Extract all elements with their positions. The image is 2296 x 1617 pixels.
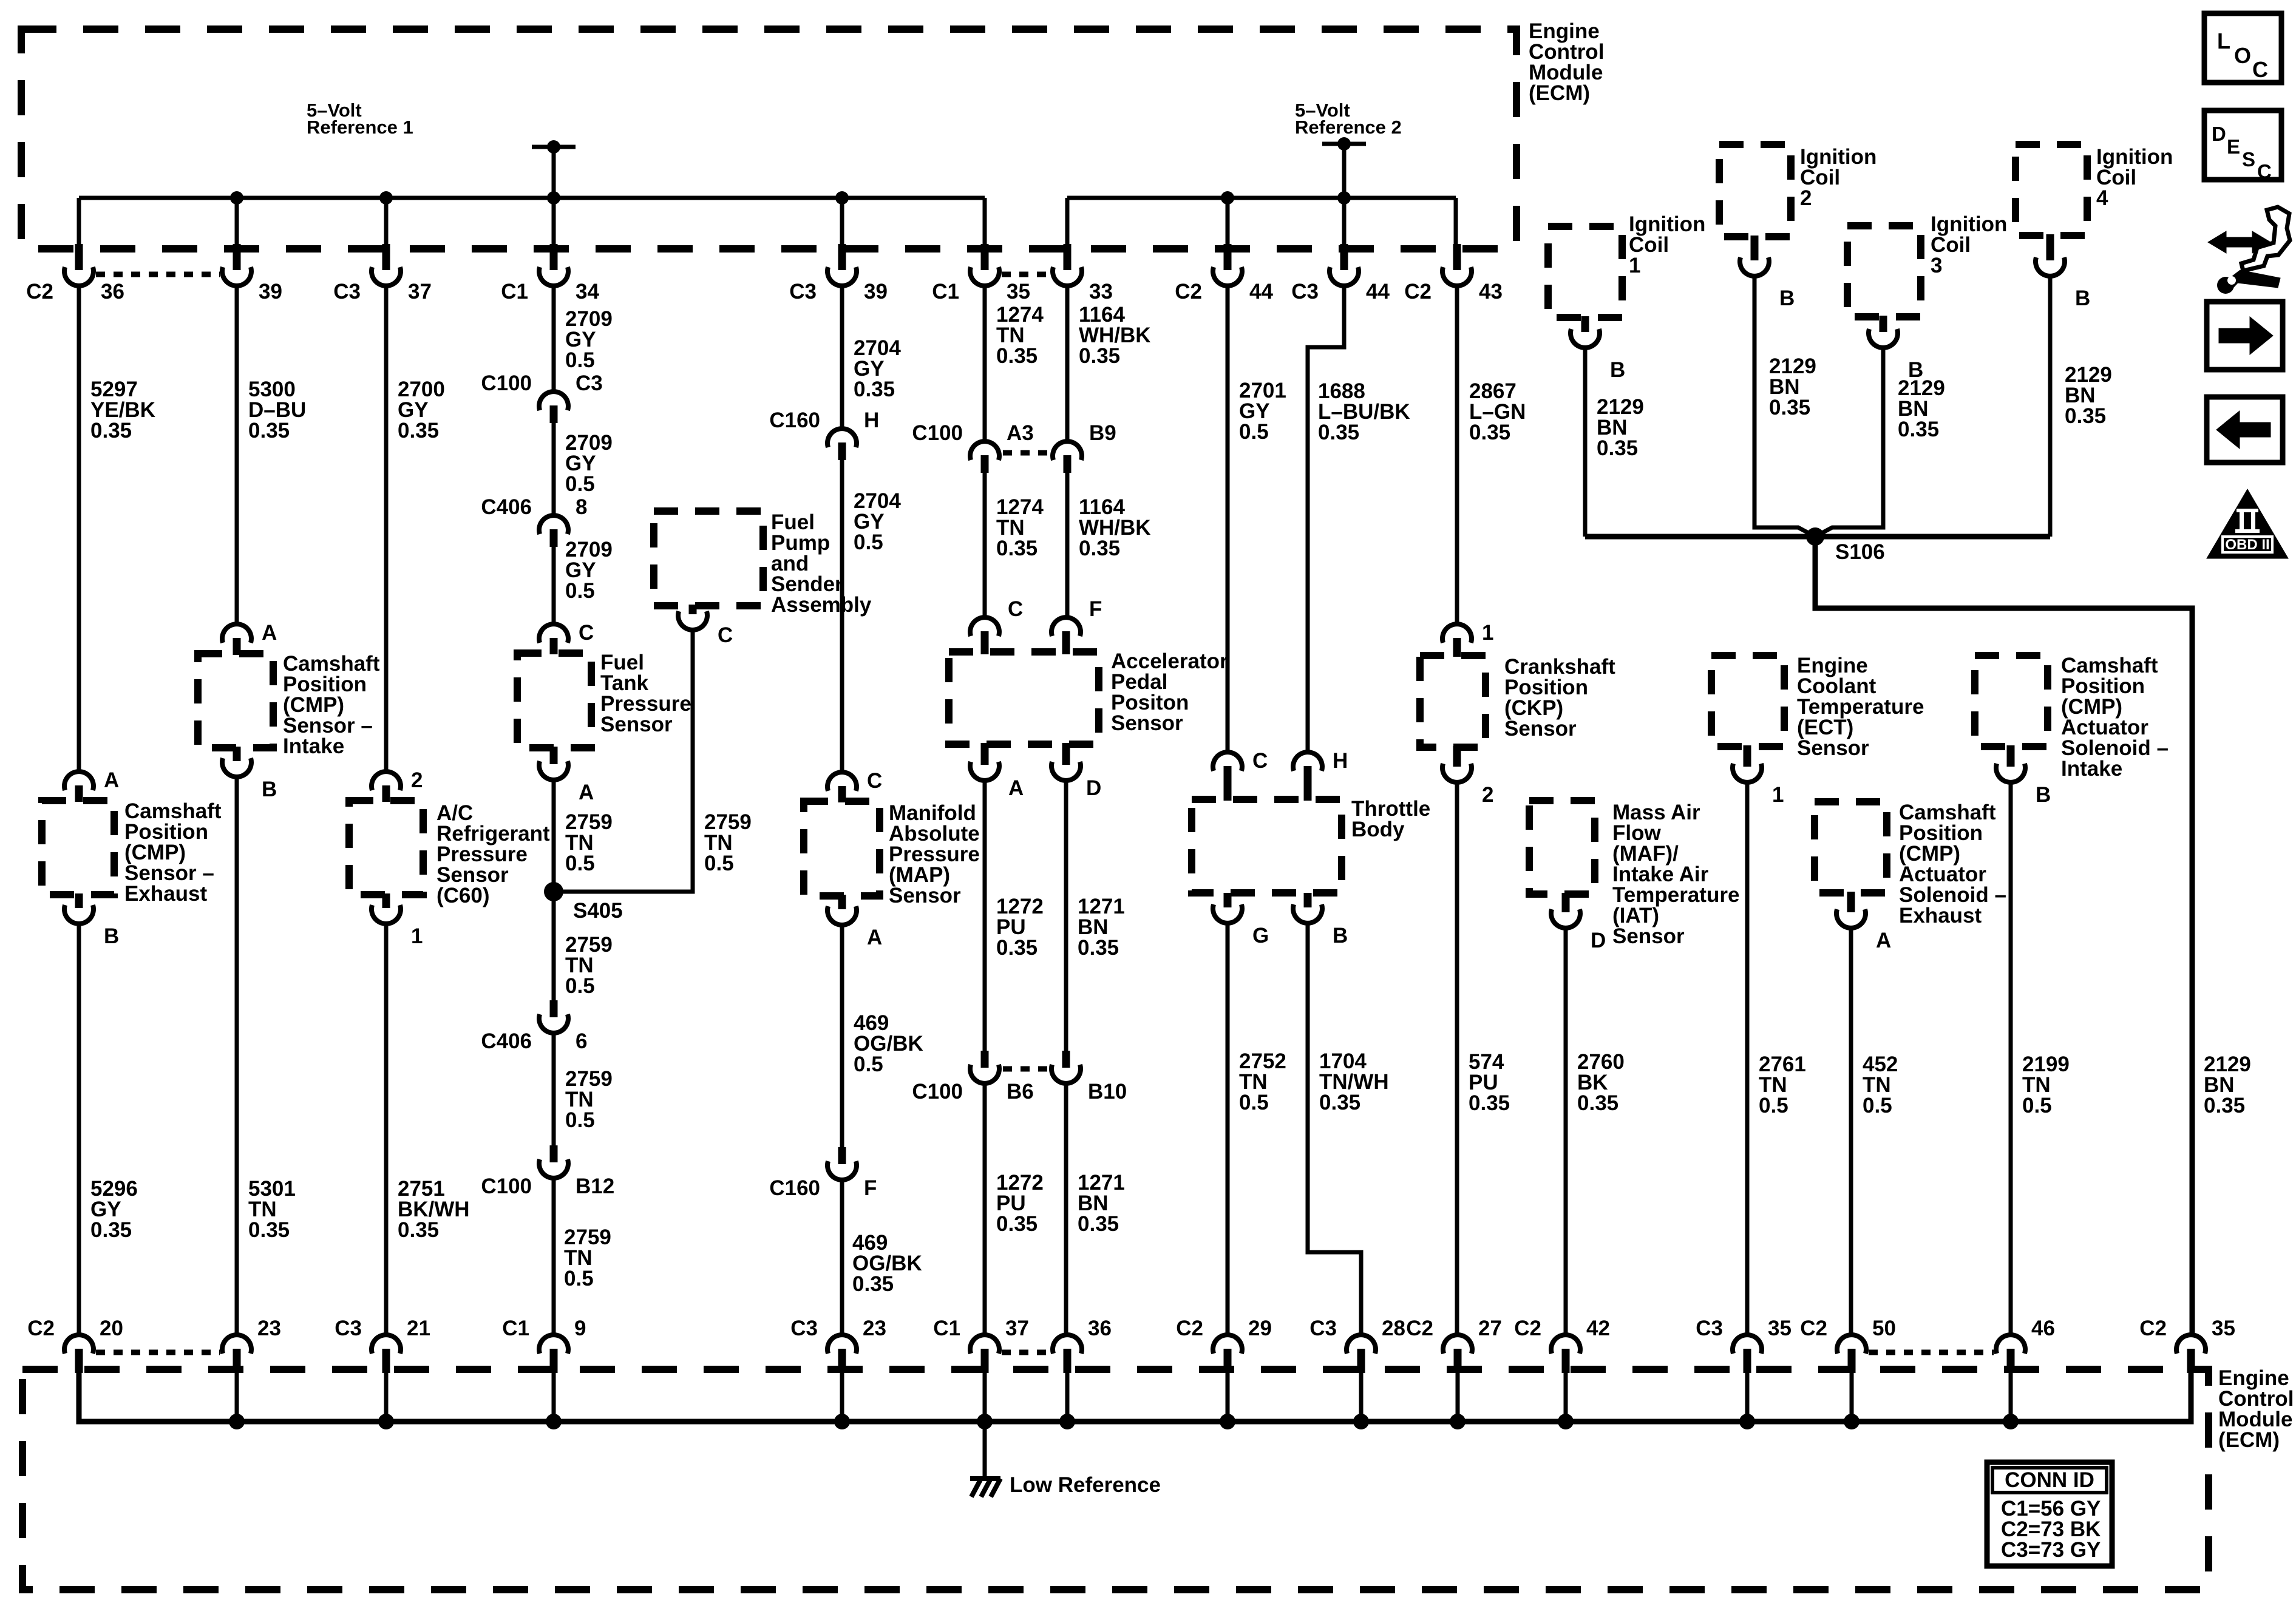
svg-text:C3: C3 xyxy=(1309,1317,1337,1340)
svg-text:0.35: 0.35 xyxy=(248,419,290,442)
svg-text:34: 34 xyxy=(576,280,599,303)
svg-text:29: 29 xyxy=(1248,1317,1272,1340)
svg-text:D: D xyxy=(1086,776,1101,800)
svg-text:(C60): (C60) xyxy=(436,884,490,907)
svg-text:0.35: 0.35 xyxy=(90,419,132,442)
svg-text:C3: C3 xyxy=(1696,1317,1723,1340)
wire 1274 TN segment 1 xyxy=(983,285,987,442)
wire 2129 BN coil4 segment xyxy=(2048,275,2053,537)
svg-text:B: B xyxy=(1333,924,1348,947)
svg-text:C: C xyxy=(2257,160,2272,183)
svg-text:O: O xyxy=(2234,43,2251,68)
svg-text:B9: B9 xyxy=(1089,421,1116,445)
svg-text:B10: B10 xyxy=(1088,1080,1127,1103)
svg-text:C2: C2 xyxy=(27,1317,55,1340)
wire 574 PU segment xyxy=(1455,781,1459,1335)
ECM bottom connector C2 pin 20 xyxy=(64,1335,93,1354)
svg-text:0.35: 0.35 xyxy=(248,1218,290,1242)
svg-text:21: 21 xyxy=(407,1317,430,1340)
svg-text:S106: S106 xyxy=(1835,540,1885,564)
connector pin 1 of ECT sensor xyxy=(1744,745,1751,767)
svg-text:0.5: 0.5 xyxy=(564,1267,594,1290)
node low reference bus junctions xyxy=(229,1414,245,1429)
svg-text:8: 8 xyxy=(576,495,587,519)
wire 452 TN segment xyxy=(1849,927,1853,1335)
diagnostic tool icon wrench xyxy=(2229,270,2280,292)
svg-text:0.5: 0.5 xyxy=(565,1108,595,1132)
wire 1271 BN segment 2 xyxy=(1064,1083,1068,1335)
svg-text:0.5: 0.5 xyxy=(1863,1094,1892,1117)
svg-text:(ECM): (ECM) xyxy=(1529,81,1590,105)
svg-text:0.35: 0.35 xyxy=(2204,1094,2245,1117)
svg-text:B: B xyxy=(1908,358,1923,382)
connector pin B of ignition coil 4 xyxy=(2046,234,2054,260)
svg-text:43: 43 xyxy=(1479,280,1503,303)
svg-text:C3: C3 xyxy=(1291,280,1319,303)
svg-text:42: 42 xyxy=(1586,1317,1610,1340)
wire 2129 BN coil2 segment with V merge xyxy=(1754,275,1815,537)
svg-text:0.35: 0.35 xyxy=(852,1272,894,1296)
svg-text:A: A xyxy=(1876,929,1891,952)
engine coolant temperature ECT sensor dashed box xyxy=(1711,656,1784,747)
dotted connector bracket B6-B10 xyxy=(1003,1066,1049,1072)
wire 1704 TN/WH jogged segment xyxy=(1308,922,1361,1335)
svg-text:S: S xyxy=(2242,148,2255,171)
svg-text:0.35: 0.35 xyxy=(1469,421,1510,444)
CMP actuator solenoid intake dashed box xyxy=(1975,656,2048,747)
connector pin B of CMP sensor exhaust xyxy=(75,893,83,908)
svg-text:23: 23 xyxy=(257,1317,281,1340)
svg-text:0.5: 0.5 xyxy=(854,1053,883,1076)
diagnostic tool icon part outline xyxy=(2241,207,2290,271)
svg-text:C100: C100 xyxy=(912,1080,963,1103)
ECM bottom connector C1 pin 9 xyxy=(539,1335,568,1354)
wire 5300 D-BU segment xyxy=(235,285,239,625)
diagnostic tool icon double arrow xyxy=(2208,231,2271,253)
wire 5-Volt Reference 1 drop xyxy=(552,147,556,198)
svg-text:0.5: 0.5 xyxy=(565,348,595,372)
svg-text:27: 27 xyxy=(1478,1317,1502,1340)
5-Volt Reference 2 feed tick xyxy=(1322,142,1366,146)
ECM bottom connector C3 pin 23 xyxy=(827,1335,857,1354)
connector pin C of fuel tank pressure sensor xyxy=(539,624,568,643)
svg-text:35: 35 xyxy=(1007,280,1030,303)
svg-text:C1: C1 xyxy=(933,1317,960,1340)
low reference bus inside bottom ECM xyxy=(79,1372,2191,1422)
wire 1688 L-BU/BK jogged segment xyxy=(1308,285,1344,753)
svg-text:1: 1 xyxy=(1482,621,1493,645)
wire stubs ECM bottom pins to low reference bus xyxy=(235,1372,239,1422)
inline connector pin B9 xyxy=(1053,441,1082,460)
wire 2752 TN segment xyxy=(1226,922,1230,1335)
svg-text:Reference 1: Reference 1 xyxy=(307,117,413,138)
svg-text:C2: C2 xyxy=(1800,1317,1827,1340)
svg-text:46: 46 xyxy=(2031,1317,2055,1340)
svg-text:B: B xyxy=(2036,783,2051,807)
ECM top connector pin 39 xyxy=(233,244,241,270)
ignition coil 4 dashed box xyxy=(2016,144,2087,236)
svg-text:1: 1 xyxy=(1629,254,1640,277)
svg-text:C2: C2 xyxy=(1406,1317,1433,1340)
svg-text:F: F xyxy=(864,1176,877,1200)
svg-text:0.35: 0.35 xyxy=(2065,404,2106,428)
svg-text:2: 2 xyxy=(411,768,423,792)
dotted connector bracket pins 50-46 xyxy=(1869,1350,1994,1355)
connector pin H of throttle body xyxy=(1293,752,1322,771)
wire 2701 GY segment xyxy=(1226,285,1230,753)
wire 2700 GY segment xyxy=(384,285,389,773)
dotted connector bracket pins 20-23 xyxy=(96,1350,220,1355)
svg-text:6: 6 xyxy=(576,1029,587,1053)
svg-text:C3: C3 xyxy=(335,1317,362,1340)
connector pin D of accelerator pedal position sensor xyxy=(1062,743,1070,765)
svg-text:Assembly: Assembly xyxy=(771,593,872,617)
ignition coil 3 dashed box xyxy=(1847,226,1921,317)
svg-text:0.35: 0.35 xyxy=(1597,436,1638,460)
camshaft position CMP sensor exhaust dashed box xyxy=(42,801,114,895)
OBD II triangle icon xyxy=(2207,489,2288,558)
svg-text:0.35: 0.35 xyxy=(1079,537,1120,560)
wire 1164 WH/BK segment 2 xyxy=(1065,473,1070,619)
CONN ID table xyxy=(1987,1462,2112,1566)
svg-text:C100: C100 xyxy=(481,371,532,395)
wire 2129 BN coil3 segment with V merge xyxy=(1815,347,1883,537)
svg-text:Sensor: Sensor xyxy=(1797,736,1869,760)
connector pin 2 of CKP sensor xyxy=(1453,746,1461,767)
svg-text:B6: B6 xyxy=(1007,1080,1034,1103)
mass air flow MAF IAT sensor dashed box xyxy=(1529,801,1595,894)
svg-text:C100: C100 xyxy=(481,1175,532,1198)
svg-text:0.5: 0.5 xyxy=(704,852,734,875)
ECM top connector C3 pin 37 xyxy=(382,244,390,270)
svg-text:0.35: 0.35 xyxy=(996,936,1038,960)
camshaft position CMP sensor intake dashed box xyxy=(198,654,273,748)
svg-text:B: B xyxy=(1779,286,1795,310)
svg-text:D: D xyxy=(1591,929,1606,952)
connector pin B of ignition coil 3 xyxy=(1880,316,1887,332)
svg-text:C3=73 GY: C3=73 GY xyxy=(2001,1538,2101,1562)
wire 2709 GY segment 3 xyxy=(552,547,556,625)
wire 2759 TN segment below S405 xyxy=(552,892,556,1002)
svg-text:CONN ID: CONN ID xyxy=(2005,1468,2094,1492)
svg-text:0.5: 0.5 xyxy=(565,852,595,875)
connector pin 2 of A/C refrigerant pressure sensor xyxy=(372,771,401,790)
wire 5301 TN segment xyxy=(235,776,239,1335)
connector pin B of CMP sensor intake xyxy=(233,747,241,761)
ECM bottom connector pin 23 xyxy=(222,1335,251,1354)
dotted connector bracket pins 35-33 xyxy=(1002,272,1050,277)
svg-text:S405: S405 xyxy=(573,899,623,923)
inline connector C100 pin B6 xyxy=(981,1051,989,1068)
connector pin C of accelerator pedal position sensor xyxy=(970,617,999,636)
svg-text:C2: C2 xyxy=(1175,280,1202,303)
svg-text:0.5: 0.5 xyxy=(854,531,883,554)
svg-text:OBD II: OBD II xyxy=(2225,537,2269,553)
svg-text:G: G xyxy=(1252,924,1269,947)
svg-text:36: 36 xyxy=(101,280,124,303)
svg-text:37: 37 xyxy=(408,280,432,303)
svg-text:39: 39 xyxy=(864,280,888,303)
svg-text:C: C xyxy=(1008,597,1023,621)
svg-text:Reference 2: Reference 2 xyxy=(1295,117,1402,138)
svg-text:39: 39 xyxy=(259,280,282,303)
CMP actuator solenoid exhaust dashed box xyxy=(1815,802,1887,893)
svg-text:Intake: Intake xyxy=(2061,757,2122,781)
ECM top connector C1 pin 34 xyxy=(550,244,558,270)
svg-text:2: 2 xyxy=(1800,186,1812,210)
svg-text:C3: C3 xyxy=(790,1317,818,1340)
ECM bottom module dashed box xyxy=(22,1369,2209,1590)
svg-text:Sensor: Sensor xyxy=(600,713,673,736)
svg-text:44: 44 xyxy=(1249,280,1273,303)
svg-text:0.5: 0.5 xyxy=(1239,1091,1269,1114)
connector pin B of ignition coil 2 xyxy=(1751,236,1759,260)
dotted connector bracket pins 36-39 xyxy=(96,272,220,277)
connector pin F of accelerator pedal position sensor xyxy=(1051,617,1081,636)
connector pin A of CMP actuator solenoid exhaust xyxy=(1847,892,1855,912)
wire 2760 BK segment xyxy=(1564,927,1568,1335)
svg-text:0.35: 0.35 xyxy=(1769,396,1810,419)
svg-text:0.35: 0.35 xyxy=(1898,418,1939,441)
connector pin C of fuel pump and sender assembly xyxy=(689,605,697,614)
LOC icon box xyxy=(2204,13,2281,83)
ignition coil 2 dashed box xyxy=(1719,144,1791,237)
svg-text:0.35: 0.35 xyxy=(1577,1091,1618,1115)
svg-text:0.35: 0.35 xyxy=(90,1218,132,1242)
svg-text:C160: C160 xyxy=(769,408,820,432)
svg-text:0.5: 0.5 xyxy=(1239,420,1269,444)
svg-text:35: 35 xyxy=(1768,1317,1792,1340)
ECM bottom connector C2 pin 42 xyxy=(1551,1335,1580,1354)
ECM top connector C1 pin 35 xyxy=(981,244,989,270)
connector pin A of CMP sensor intake xyxy=(222,624,251,643)
svg-text:0.5: 0.5 xyxy=(2022,1094,2052,1117)
svg-text:H: H xyxy=(864,408,879,432)
svg-text:0.5: 0.5 xyxy=(565,579,595,603)
bus 5-Volt Reference 2 inside ECM xyxy=(1067,196,1456,200)
wire 1271 BN segment 1 xyxy=(1064,781,1068,1052)
svg-text:C406: C406 xyxy=(481,1029,532,1053)
svg-text:Low Reference: Low Reference xyxy=(1010,1473,1161,1497)
inline connector C160 pin F xyxy=(838,1147,846,1164)
ECM top connector C3 pin 39 xyxy=(838,244,846,270)
svg-text:0.35: 0.35 xyxy=(1078,1212,1119,1236)
accelerator pedal position sensor dashed box xyxy=(949,652,1099,744)
svg-text:23: 23 xyxy=(863,1317,886,1340)
svg-text:C2: C2 xyxy=(2139,1317,2167,1340)
svg-text:0.35: 0.35 xyxy=(854,378,895,401)
connector pin A of CMP sensor exhaust xyxy=(64,771,93,790)
A/C refrigerant pressure sensor dashed box xyxy=(349,801,423,895)
connector pin D of MAF sensor xyxy=(1562,893,1570,912)
left arrow icon box xyxy=(2207,397,2283,463)
wire 2709 GY segment 1 xyxy=(552,285,556,393)
svg-text:Intake: Intake xyxy=(283,734,344,758)
wire 2867 L-GN segment xyxy=(1455,285,1459,625)
svg-text:B: B xyxy=(1610,358,1625,382)
svg-text:0.35: 0.35 xyxy=(1319,1091,1360,1114)
svg-text:35: 35 xyxy=(2212,1317,2235,1340)
inline connector C406 pin 8 xyxy=(539,515,568,534)
ECM top connector C2 pin 36 xyxy=(75,244,83,270)
ECM top connector C3 pin 44 xyxy=(1340,244,1348,270)
svg-text:E: E xyxy=(2227,135,2240,158)
svg-text:C3: C3 xyxy=(333,280,361,303)
dotted connector bracket A3-B9 xyxy=(1003,450,1049,456)
svg-text:C2: C2 xyxy=(1514,1317,1541,1340)
connector pin A of accelerator pedal position sensor xyxy=(981,743,989,765)
crankshaft position CKP sensor dashed box xyxy=(1420,656,1486,747)
svg-text:C: C xyxy=(2252,57,2268,82)
wire 2759 TN segment 6 xyxy=(552,1178,556,1335)
svg-text:C406: C406 xyxy=(481,495,532,519)
ground low reference stub xyxy=(983,1422,987,1481)
svg-text:B: B xyxy=(2075,286,2090,310)
svg-text:H: H xyxy=(1333,749,1348,773)
svg-text:C3: C3 xyxy=(576,371,603,395)
inline connector C100 pin A3 xyxy=(970,441,999,460)
svg-text:C2: C2 xyxy=(26,280,53,303)
svg-text:37: 37 xyxy=(1005,1317,1029,1340)
svg-text:Exhaust: Exhaust xyxy=(1899,904,1982,927)
svg-text:Sensor: Sensor xyxy=(889,884,961,907)
svg-text:C2: C2 xyxy=(1404,280,1432,303)
svg-text:50: 50 xyxy=(1872,1317,1896,1340)
ECM bottom connector pin 46 xyxy=(1996,1335,2025,1354)
svg-text:0.35: 0.35 xyxy=(996,1212,1038,1236)
wire 469 OG/BK segment xyxy=(840,925,844,1148)
svg-text:9: 9 xyxy=(574,1317,586,1340)
wire 2129 BN coil1 segment xyxy=(1583,347,1588,537)
svg-text:B: B xyxy=(262,778,277,801)
wire stubs bus to ECM pins xyxy=(77,198,81,248)
svg-text:44: 44 xyxy=(1366,280,1390,303)
ground symbol xyxy=(970,1476,1000,1481)
svg-text:A: A xyxy=(867,926,882,949)
wire 2199 TN segment xyxy=(2009,781,2013,1335)
wire 1164 WH/BK segment 1 xyxy=(1065,285,1070,442)
connector pin B of ignition coil 1 xyxy=(1581,316,1589,332)
svg-text:L: L xyxy=(2217,29,2230,53)
svg-text:C3: C3 xyxy=(789,280,817,303)
connector pin A of MAP sensor xyxy=(838,895,846,909)
svg-text:C1: C1 xyxy=(501,280,528,303)
svg-text:Body: Body xyxy=(1351,818,1405,841)
svg-text:3: 3 xyxy=(1931,254,1942,277)
throttle body dashed box xyxy=(1192,799,1342,893)
svg-text:0.5: 0.5 xyxy=(565,974,595,998)
node bus2 junctions xyxy=(1221,191,1234,205)
svg-text:A: A xyxy=(579,781,594,804)
svg-text:0.35: 0.35 xyxy=(398,1218,439,1242)
ECM top connector C2 pin 43 xyxy=(1453,244,1461,270)
svg-text:C160: C160 xyxy=(769,1176,820,1200)
inline connector C100 pin B12 xyxy=(550,1145,558,1162)
ECM top module dashed box xyxy=(21,29,1517,249)
ECM top connector pin 33 xyxy=(1064,244,1072,270)
svg-text:33: 33 xyxy=(1089,280,1113,303)
5-Volt Reference 1 feed tick xyxy=(532,145,576,149)
connector pin C of throttle body xyxy=(1213,752,1242,771)
manifold absolute pressure MAP sensor dashed box xyxy=(804,801,880,896)
connector pin G of throttle body xyxy=(1224,893,1232,907)
svg-text:0.35: 0.35 xyxy=(1318,421,1359,444)
svg-text:0.5: 0.5 xyxy=(565,472,595,496)
svg-text:C: C xyxy=(579,621,594,645)
wire 2129 BN from S106 to ECM pin 35 xyxy=(1815,537,2192,1335)
wire 1272 PU segment 1 xyxy=(983,781,987,1052)
ignition coil 1 dashed box xyxy=(1548,226,1622,317)
svg-text:0.5: 0.5 xyxy=(1759,1094,1788,1117)
svg-text:(ECM): (ECM) xyxy=(2218,1428,2280,1452)
wire 5296 GY segment xyxy=(77,923,81,1335)
svg-text:20: 20 xyxy=(100,1317,123,1340)
ECM bottom connector C1 pin 37 xyxy=(970,1335,999,1354)
wire 2704 GY segment 2 xyxy=(840,460,844,773)
svg-text:4: 4 xyxy=(2096,186,2108,210)
svg-text:C1: C1 xyxy=(932,280,959,303)
node S106 splice xyxy=(1806,527,1824,546)
node bus1 junctions xyxy=(230,191,243,205)
svg-text:C: C xyxy=(718,623,733,647)
svg-text:C100: C100 xyxy=(912,421,963,445)
connector pin C of MAP sensor xyxy=(827,772,857,791)
svg-text:C2: C2 xyxy=(1176,1317,1203,1340)
svg-text:A: A xyxy=(262,621,277,645)
ECM bottom connector pin 36 xyxy=(1053,1335,1082,1354)
svg-text:C: C xyxy=(1252,749,1268,773)
svg-text:0.35: 0.35 xyxy=(996,537,1038,560)
wire 2751 BK/WH segment xyxy=(384,923,389,1335)
ECM bottom connector C2 pin 27 xyxy=(1443,1335,1472,1354)
wire 2759 TN segment 5 xyxy=(552,1033,556,1147)
svg-text:0.35: 0.35 xyxy=(398,419,439,442)
ECM bottom connector C2 pin 50 xyxy=(1837,1335,1866,1354)
svg-text:A: A xyxy=(1008,776,1024,800)
right arrow icon box xyxy=(2207,302,2283,370)
svg-text:36: 36 xyxy=(1088,1317,1112,1340)
svg-text:2: 2 xyxy=(1482,783,1493,807)
wire 2704 GY segment 1 xyxy=(840,285,844,430)
inline connector C406 pin 6 xyxy=(550,1000,558,1017)
connector pin B of CMP actuator solenoid intake xyxy=(2007,745,2015,767)
inline connector pin B10 xyxy=(1062,1051,1070,1068)
svg-text:F: F xyxy=(1089,597,1102,621)
wire 469 OG/BK segment 2 xyxy=(840,1180,844,1335)
connector pin B of throttle body xyxy=(1304,893,1312,907)
svg-text:28: 28 xyxy=(1382,1317,1405,1340)
svg-text:A: A xyxy=(104,768,119,792)
svg-text:C: C xyxy=(867,769,882,793)
svg-text:0.35: 0.35 xyxy=(1469,1091,1510,1115)
bus 5-Volt Reference 1 inside ECM xyxy=(79,196,985,200)
wire 2709 GY segment 2 xyxy=(552,423,556,517)
wire 2761 TN segment xyxy=(1745,781,1750,1335)
svg-text:B12: B12 xyxy=(576,1175,614,1198)
wire 1272 PU segment 2 xyxy=(983,1083,987,1335)
fuel tank pressure sensor dashed box xyxy=(517,653,591,748)
DESC icon box xyxy=(2204,110,2281,180)
svg-text:1: 1 xyxy=(411,924,423,948)
svg-text:0.35: 0.35 xyxy=(996,344,1038,368)
wire 1274 TN segment 2 xyxy=(983,473,987,619)
svg-text:Sensor: Sensor xyxy=(1612,924,1685,948)
svg-text:Sensor: Sensor xyxy=(1504,717,1577,741)
ECM bottom connector C2 pin 29 xyxy=(1213,1335,1242,1354)
svg-text:0.35: 0.35 xyxy=(1078,936,1119,960)
ECM bottom connector C3 pin 35 xyxy=(1733,1335,1762,1354)
connector pin A of fuel tank pressure sensor xyxy=(550,747,558,764)
